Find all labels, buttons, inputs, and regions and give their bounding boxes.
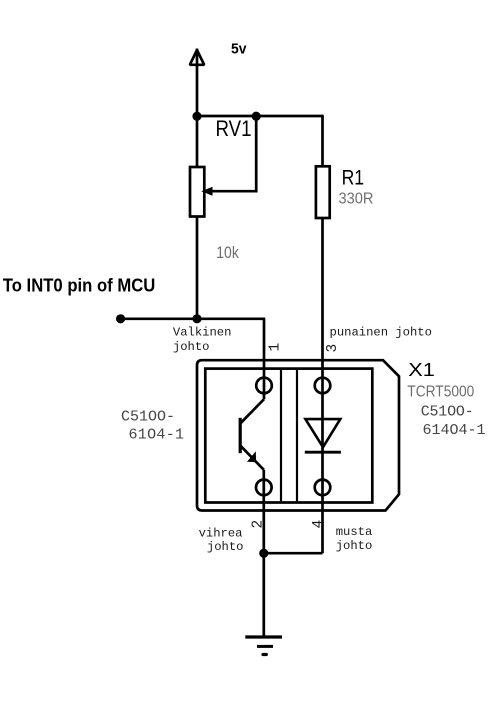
svg-text:To INT0 pin of MCU: To INT0 pin of MCU [3, 275, 156, 296]
svg-text:5v: 5v [231, 41, 247, 58]
svg-text:1: 1 [267, 343, 283, 352]
svg-text:C51OO-: C51OO- [421, 404, 474, 421]
svg-text:johto: johto [336, 539, 373, 553]
svg-text:10k: 10k [216, 244, 239, 262]
svg-text:johto: johto [207, 540, 244, 554]
svg-text:X1: X1 [408, 359, 435, 380]
svg-text:C51OO-: C51OO- [121, 409, 175, 426]
svg-text:vihrea: vihrea [199, 527, 243, 541]
svg-text:614O4-1: 614O4-1 [423, 422, 486, 439]
svg-text:punainen johto: punainen johto [330, 325, 432, 339]
svg-text:TCRT5000: TCRT5000 [407, 384, 474, 401]
svg-text:2: 2 [250, 520, 266, 529]
svg-text:RV1: RV1 [216, 116, 252, 141]
svg-text:3: 3 [325, 344, 341, 353]
svg-text:musta: musta [336, 525, 373, 539]
svg-text:R1: R1 [342, 166, 365, 190]
svg-text:61O4-1: 61O4-1 [129, 427, 185, 444]
svg-text:4: 4 [311, 520, 327, 529]
svg-text:johto: johto [173, 340, 210, 354]
svg-text:Valkinen: Valkinen [173, 326, 232, 340]
svg-text:330R: 330R [339, 190, 374, 207]
